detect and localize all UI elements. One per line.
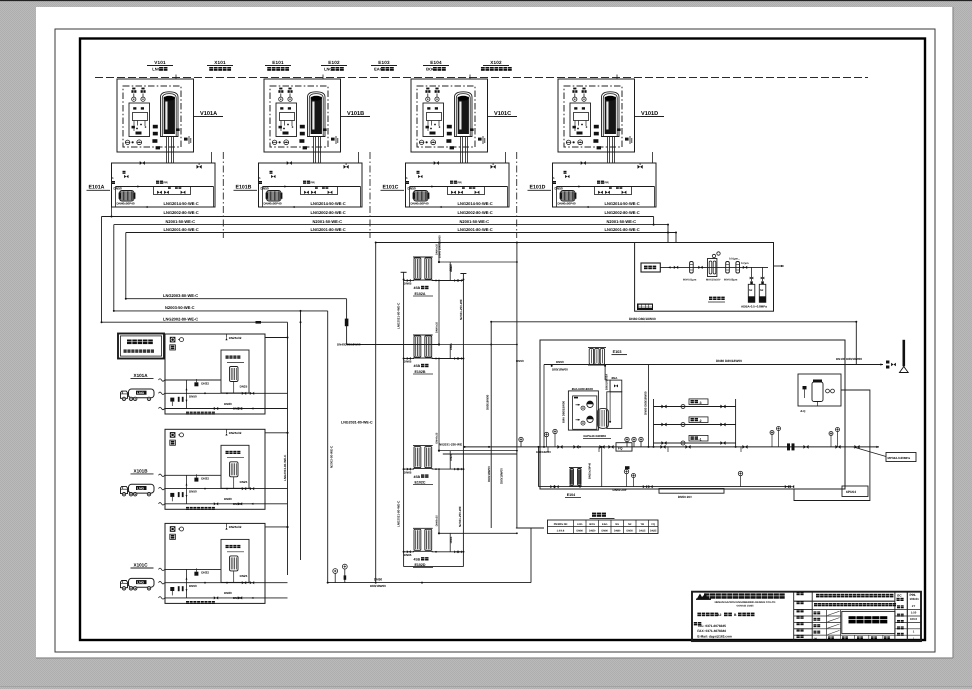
svg-text:DN80: DN80: [602, 529, 609, 532]
svg-text:DN50: DN50: [374, 577, 382, 581]
svg-text:FAX: 0371-6078346: FAX: 0371-6078346: [697, 629, 726, 633]
svg-text:LNG2002-80-WE-C: LNG2002-80-WE-C: [163, 316, 198, 321]
svg-text:V101B: V101B: [347, 111, 364, 117]
svg-text:DN65: DN65: [404, 282, 412, 286]
svg-text:DN80 D80/18W00: DN80 D80/18W00: [629, 317, 656, 321]
svg-text:X101C: X101C: [134, 562, 149, 567]
svg-text:LNG: LNG: [577, 523, 582, 526]
svg-text:YB: YB: [641, 523, 645, 526]
svg-text:E102B: E102B: [415, 370, 426, 374]
svg-text:TEL: 0371-6078345: TEL: 0371-6078345: [697, 624, 726, 628]
svg-text:X101A: X101A: [134, 373, 149, 378]
svg-text:LNG2002-80-WE-C: LNG2002-80-WE-C: [164, 210, 199, 215]
svg-text:LNG2014-50-WE-C: LNG2014-50-WE-C: [311, 201, 346, 206]
svg-text:DN80: DN80: [614, 529, 621, 532]
svg-text:X101: X101: [214, 60, 226, 65]
svg-text:4SB: 4SB: [414, 364, 421, 368]
svg-text:LNG2014-50-WE-C: LNG2014-50-WE-C: [458, 201, 493, 206]
svg-text:LNG2002-80-WE-C: LNG2002-80-WE-C: [311, 210, 346, 215]
svg-text:DN25: DN25: [450, 265, 453, 272]
svg-text:DN50: DN50: [556, 360, 564, 364]
svg-text:-2: -2: [699, 419, 702, 423]
svg-text:MAX10x10#: MAX10x10#: [706, 279, 721, 282]
svg-text:0.01μm...: 0.01μm...: [729, 257, 740, 260]
svg-text:N02031-250-WE: N02031-250-WE: [439, 442, 462, 446]
svg-text:100.0: 100.0: [910, 617, 917, 621]
svg-text:D80/18W00: D80/18W00: [499, 468, 503, 484]
svg-text:DN40x25: DN40x25: [436, 321, 439, 333]
svg-text:0.7μm: 0.7μm: [741, 262, 749, 265]
svg-text:ADBA-0.5~0.8MPa: ADBA-0.5~0.8MPa: [741, 305, 767, 309]
svg-text:V101A: V101A: [200, 111, 217, 117]
svg-text:E103: E103: [613, 350, 622, 354]
svg-text:DN32: DN32: [201, 381, 209, 385]
svg-text:E103: E103: [378, 60, 390, 65]
svg-text:-3: -3: [699, 401, 702, 405]
svg-text:E-Mail: dzgs@163.com: E-Mail: dzgs@163.com: [697, 634, 732, 638]
svg-text:DN40x25: DN40x25: [436, 515, 439, 527]
svg-text:E101C: E101C: [383, 185, 399, 191]
svg-text:-1: -1: [699, 437, 702, 441]
svg-text:LNG2002-80-WE-C: LNG2002-80-WE-C: [458, 210, 493, 215]
svg-text:D80/18W00: D80/18W00: [370, 584, 386, 588]
svg-text:DN65: DN65: [404, 470, 412, 474]
svg-text:N2001-50-WE-C: N2001-50-WE-C: [460, 219, 490, 224]
svg-text:LNG2014-50-WE-C: LNG2014-50-WE-C: [605, 201, 640, 206]
svg-text:D80/18W00: D80/18W00: [487, 466, 491, 482]
svg-text:GONGSI 10365: GONGSI 10365: [737, 605, 755, 608]
svg-text:DN25: DN25: [240, 574, 248, 578]
svg-text:LNG2031-80-WE-C: LNG2031-80-WE-C: [341, 420, 373, 424]
svg-text:LNG2001-80-WE-C: LNG2001-80-WE-C: [311, 227, 346, 232]
svg-text:DN25: DN25: [450, 536, 453, 543]
svg-text:DN40x50P40: DN40x50P40: [558, 201, 576, 205]
svg-text:DN15: DN15: [639, 529, 646, 532]
svg-text:DN32: DN32: [201, 477, 209, 481]
svg-text:LNG: LNG: [137, 391, 144, 395]
svg-text:DN80 D80/18W00: DN80 D80/18W00: [716, 359, 742, 363]
svg-text:DN80: DN80: [224, 591, 232, 595]
svg-text:BOG: BOG: [589, 523, 595, 526]
svg-text:D80/18W00: D80/18W00: [552, 368, 568, 372]
svg-text:1:50: 1:50: [911, 610, 917, 614]
svg-text:DN50 20#: DN50 20#: [678, 495, 692, 499]
svg-text:N2003-50-WE-C: N2003-50-WE-C: [165, 305, 195, 310]
svg-text:PN/MPa DN: PN/MPa DN: [554, 523, 568, 526]
svg-text:DN50 20#: DN50 20#: [613, 488, 627, 492]
svg-text:DN50: DN50: [189, 584, 197, 588]
svg-text:LNG: LNG: [137, 487, 144, 491]
svg-text:60#0.05μm: 60#0.05μm: [724, 279, 738, 282]
svg-text:E102C: E102C: [415, 480, 426, 484]
svg-text:DN40x25: DN40x25: [436, 243, 439, 255]
svg-text:E102A: E102A: [415, 292, 426, 296]
svg-text:LNG2031-80-WE-C: LNG2031-80-WE-C: [396, 500, 400, 527]
svg-text:V101: V101: [154, 60, 166, 65]
svg-text:E101: E101: [272, 60, 284, 65]
svg-text:4SB: 4SB: [414, 558, 421, 562]
svg-text:LNG2003-80-WE-C: LNG2003-80-WE-C: [283, 454, 287, 481]
svg-text:V101D: V101D: [641, 111, 658, 117]
svg-text:MP042-0.60MPa: MP042-0.60MPa: [888, 456, 911, 460]
svg-text:LNG2002-80-WE-C: LNG2002-80-WE-C: [605, 210, 640, 215]
svg-text:ZT: ZT: [912, 604, 916, 608]
svg-text:N2003-50-WE-C: N2003-50-WE-C: [329, 445, 333, 468]
svg-text:DN80 D80/18W00: DN80 D80/18W00: [643, 391, 647, 415]
svg-text:DN25: DN25: [650, 529, 657, 532]
svg-text:DN100 D80/18W00: DN100 D80/18W00: [836, 357, 862, 361]
svg-text:FQ: FQ: [652, 523, 656, 526]
svg-text:DN80: DN80: [224, 402, 232, 406]
svg-text:E101A: E101A: [89, 185, 105, 191]
svg-text:DN50: DN50: [189, 394, 197, 398]
svg-text:E104: E104: [430, 60, 442, 65]
svg-text:N2001-50-WE-C: N2001-50-WE-C: [166, 219, 196, 224]
svg-text:E104: E104: [567, 493, 575, 497]
svg-text:6APG40-04D9B0: 6APG40-04D9B0: [583, 434, 606, 438]
svg-text:1.0/0.8: 1.0/0.8: [557, 529, 565, 532]
svg-text:DN80: DN80: [224, 497, 232, 501]
svg-text:E102: E102: [328, 60, 340, 65]
svg-text:LNG: LNG: [137, 581, 144, 585]
svg-text:N2021-250-WE: N2021-250-WE: [459, 299, 463, 320]
svg-text:DN25: DN25: [450, 343, 453, 350]
svg-text:DN65: DN65: [404, 360, 412, 364]
svg-text:E101D: E101D: [530, 185, 546, 191]
svg-text:FQ: FQ: [618, 446, 623, 450]
svg-text:DN50: DN50: [627, 529, 634, 532]
svg-text:A2: A2: [717, 613, 721, 617]
svg-text:EAG: EAG: [602, 523, 607, 526]
svg-text:DN25: DN25: [450, 453, 453, 460]
svg-text:LNG2003-80-WE-C: LNG2003-80-WE-C: [163, 293, 198, 298]
svg-text:V101C: V101C: [494, 111, 511, 117]
svg-text:DN40x50P40: DN40x50P40: [264, 201, 282, 205]
svg-text:8MA D80/18W00: 8MA D80/18W00: [572, 387, 594, 391]
svg-text:DN50: DN50: [516, 359, 524, 363]
svg-text:DN25: DN25: [240, 480, 248, 484]
svg-text:DN25x20P40: DN25x20P40: [588, 462, 591, 479]
svg-text:N2001-50-WE-C: N2001-50-WE-C: [607, 219, 637, 224]
svg-text:X102: X102: [490, 60, 502, 65]
svg-text:DN50: DN50: [589, 529, 596, 532]
svg-text:E101B: E101B: [236, 185, 252, 191]
svg-text:DN32: DN32: [201, 571, 209, 575]
svg-text:N2: N2: [749, 289, 753, 292]
svg-text:DN50: DN50: [189, 490, 197, 494]
svg-text:NG: NG: [615, 523, 619, 526]
svg-text:DN25x32: DN25x32: [229, 525, 242, 529]
svg-text:JLQ: JLQ: [800, 409, 806, 413]
svg-text:4SB: 4SB: [414, 286, 421, 290]
svg-text:DN25x32: DN25x32: [229, 431, 242, 435]
svg-text:LNG2031-80-WE-C: LNG2031-80-WE-C: [396, 302, 400, 329]
svg-text:109-01: 109-01: [910, 597, 920, 601]
svg-text:LNG2014-50-WE-C: LNG2014-50-WE-C: [164, 201, 199, 206]
svg-text:LNG2001-80-WE-C: LNG2001-80-WE-C: [164, 227, 199, 232]
svg-text:DN65: DN65: [404, 553, 412, 557]
svg-text:4SB: 4SB: [414, 475, 421, 479]
svg-text:DN40D80/18W00: DN40D80/18W00: [337, 343, 361, 347]
svg-text:DN80: DN80: [577, 529, 584, 532]
svg-text:DN40x50P40: DN40x50P40: [117, 201, 135, 205]
svg-text:6MA D80/18W00: 6MA D80/18W00: [562, 401, 566, 423]
svg-text:N2001-50-WE-C: N2001-50-WE-C: [313, 219, 343, 224]
svg-text:LNG2001-80-WE-C: LNG2001-80-WE-C: [458, 227, 493, 232]
svg-text:D80/18W00: D80/18W00: [485, 394, 489, 410]
svg-text:60#0.01μm: 60#0.01μm: [683, 279, 697, 282]
svg-text:N2021-250-WE: N2021-250-WE: [458, 506, 462, 527]
svg-text:DN25x32: DN25x32: [229, 336, 242, 340]
svg-text:DN40x50P40: DN40x50P40: [411, 201, 429, 205]
svg-text:HENAN DAZHOU ENGINEERING DESIG: HENAN DAZHOU ENGINEERING DESIGN CO.LTD: [715, 601, 776, 604]
svg-text:LNG2001-80-WE-C: LNG2001-80-WE-C: [605, 227, 640, 232]
svg-text:DN25: DN25: [240, 385, 248, 389]
svg-text:N2: N2: [760, 289, 764, 292]
svg-text:8MA: 8MA: [612, 376, 618, 380]
svg-text:D80/18W00A: D80/18W00A: [605, 374, 608, 390]
svg-text:X101B: X101B: [134, 468, 149, 473]
svg-text:6PU04: 6PU04: [846, 490, 856, 494]
